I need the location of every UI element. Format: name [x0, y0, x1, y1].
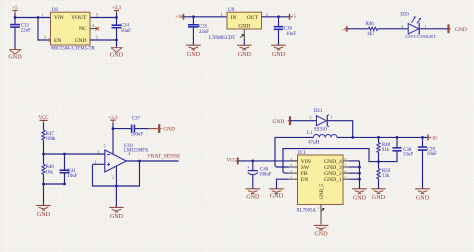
capacitor C38	[396, 136, 399, 139]
ground GND_5	[314, 224, 329, 226]
svg-text:10uF: 10uF	[121, 29, 131, 34]
ground GND divider	[36, 205, 51, 207]
junction	[192, 15, 195, 18]
ground GND C35	[186, 44, 201, 46]
svg-text:GND: GND	[238, 23, 250, 29]
wire riser SW	[275, 137, 289, 167]
power port VCC XL	[237, 157, 239, 164]
svg-text:4k7: 4k7	[367, 32, 375, 37]
svg-text:47µH: 47µH	[308, 141, 320, 146]
resistor R50	[378, 162, 380, 169]
regulator U9	[227, 12, 262, 29]
svg-text:U9: U9	[228, 7, 235, 13]
svg-text:IC1: IC1	[298, 151, 306, 156]
diode D21	[316, 116, 326, 126]
svg-text:GND: GND	[270, 194, 284, 200]
svg-text:GND_2: GND_2	[324, 171, 342, 177]
pin 2 wire	[115, 166, 117, 207]
svg-text:SS310: SS310	[314, 127, 327, 132]
svg-text:GND: GND	[353, 195, 367, 201]
resistor R40	[43, 154, 45, 164]
svg-text:SW: SW	[301, 165, 310, 171]
svg-text:GND: GND	[314, 232, 328, 238]
op-amp U10	[105, 150, 127, 172]
svg-text:1: 1	[42, 13, 44, 17]
svg-text:GND: GND	[110, 214, 124, 220]
svg-text:C33: C33	[21, 23, 30, 28]
svg-text:D20: D20	[400, 12, 409, 17]
wire FB rail over IC	[283, 149, 379, 174]
svg-text:LTST-C190GKT: LTST-C190GKT	[405, 34, 436, 39]
wire GND to D21	[290, 120, 316, 122]
svg-text:100nF: 100nF	[131, 133, 144, 138]
svg-text:GND: GND	[163, 127, 175, 133]
svg-text:VBAT_SENSE: VBAT_SENSE	[147, 154, 181, 160]
svg-text:22uF: 22uF	[199, 30, 209, 35]
wire output rail	[337, 136, 428, 138]
svg-text:91k: 91k	[382, 148, 390, 153]
junction node	[42, 153, 45, 156]
svg-text:5: 5	[96, 13, 98, 17]
capacitor C41	[64, 154, 66, 170]
svg-text:VIN: VIN	[54, 15, 64, 21]
regulator IC1	[298, 155, 344, 205]
svg-text:D21: D21	[314, 109, 323, 114]
svg-text:100uF: 100uF	[259, 172, 272, 177]
ground GND C39	[415, 188, 430, 190]
svg-text:GND_1: GND_1	[324, 177, 342, 183]
ground GND C36	[271, 44, 286, 46]
svg-text:+10: +10	[429, 137, 437, 142]
ground GND C33	[9, 50, 20, 55]
svg-text:3: 3	[97, 151, 99, 155]
svg-text:3: 3	[266, 13, 268, 17]
capacitor C35	[192, 17, 194, 25]
svg-text:U8: U8	[52, 7, 59, 13]
power port GND D21	[289, 116, 291, 125]
power port +5 out	[289, 14, 291, 20]
svg-text:L1: L1	[307, 131, 313, 136]
comment arrow	[240, 35, 243, 38]
svg-text:OUT: OUT	[247, 15, 259, 21]
svg-text:GND: GND	[272, 119, 284, 125]
svg-text:+5: +5	[291, 15, 297, 20]
svg-text:VIN: VIN	[301, 159, 311, 165]
svg-text:1: 1	[221, 13, 223, 17]
svg-text:+5: +5	[12, 6, 18, 11]
ground GND opamp	[109, 206, 124, 208]
power port VCC	[40, 119, 48, 121]
power port +10 out	[427, 134, 429, 140]
svg-text:13k: 13k	[382, 174, 390, 179]
svg-text:GND: GND	[238, 52, 252, 58]
capacitor C33	[14, 18, 16, 25]
svg-text:GND: GND	[455, 27, 467, 33]
svg-text:10uF: 10uF	[286, 32, 296, 37]
svg-text:2: 2	[401, 25, 403, 29]
svg-text:+5: +5	[342, 27, 346, 32]
svg-text:MIC5504-3.3YM5-TR: MIC5504-3.3YM5-TR	[51, 46, 96, 51]
svg-text:+10: +10	[175, 15, 183, 20]
svg-text:GND: GND	[75, 38, 87, 44]
wire +5 to U8 VIN	[15, 17, 51, 19]
svg-text:XL7005A: XL7005A	[296, 209, 316, 214]
capacitor C36	[278, 17, 280, 27]
pin 3 EN bubble	[48, 39, 50, 41]
svg-text:100k: 100k	[46, 137, 56, 142]
svg-text:1: 1	[95, 160, 97, 164]
svg-text:GND_3: GND_3	[324, 165, 342, 171]
svg-text:GND: GND	[187, 52, 201, 58]
ground GND C40	[246, 188, 261, 190]
svg-text:1: 1	[331, 115, 333, 119]
pin 3 wire OUT	[262, 16, 290, 18]
wire to R46	[347, 28, 368, 30]
comment arrow XL	[321, 209, 324, 212]
pin 2 wire	[243, 29, 245, 39]
svg-text:22uF: 22uF	[21, 29, 31, 34]
svg-text:GND: GND	[110, 53, 124, 59]
resistor R47	[42, 130, 45, 140]
pin GND_5 wire	[320, 205, 322, 225]
wire node to opamp	[44, 153, 105, 155]
LED arrows	[412, 18, 415, 23]
wire to ground	[116, 40, 118, 48]
resistor R48	[378, 137, 380, 142]
power port GND LED	[447, 24, 449, 33]
wire L1 left	[275, 136, 313, 138]
svg-text:VCC: VCC	[227, 158, 237, 163]
svg-text:4: 4	[92, 24, 94, 28]
wire EN branch	[38, 18, 47, 41]
svg-text:GND_5: GND_5	[320, 184, 325, 200]
pin 5 wire	[112, 129, 114, 155]
LED D20	[408, 24, 419, 34]
pin stubs right	[343, 160, 349, 162]
wire EN to ground	[277, 179, 289, 189]
svg-text:EN: EN	[54, 38, 61, 44]
resistor R46	[368, 27, 377, 30]
svg-text:+3.3: +3.3	[108, 116, 118, 121]
wire R47 to node	[43, 140, 45, 154]
svg-text:GND: GND	[272, 52, 286, 58]
junction	[14, 16, 17, 19]
svg-text:10uF: 10uF	[427, 152, 437, 157]
wire ground bus right	[359, 161, 361, 189]
power port +5	[13, 10, 18, 12]
svg-text:2: 2	[112, 176, 114, 180]
svg-text:10uF: 10uF	[67, 174, 77, 179]
capacitor C37	[113, 128, 132, 130]
pin 2 wire GND	[90, 39, 117, 41]
wire D20 to GND	[419, 28, 447, 30]
wire R46 to D20	[378, 28, 409, 30]
svg-text:3: 3	[44, 36, 46, 40]
power port +3.3	[114, 10, 119, 12]
power port +5 LED	[346, 26, 348, 32]
svg-text:+3.3: +3.3	[112, 6, 122, 11]
svg-text:10k: 10k	[46, 170, 54, 175]
svg-text:C34: C34	[121, 24, 130, 29]
ground GND R50	[371, 188, 386, 190]
svg-text:2: 2	[309, 115, 311, 119]
wire D21 to node	[327, 121, 352, 138]
svg-text:5: 5	[104, 144, 106, 148]
svg-text:C37: C37	[132, 117, 141, 122]
svg-text:EN: EN	[301, 177, 308, 183]
ground GND C34	[111, 48, 122, 53]
svg-text:C36: C36	[284, 27, 293, 32]
svg-text:GND: GND	[37, 212, 51, 218]
capacitor C34	[116, 18, 118, 26]
no-connect X	[96, 27, 100, 31]
svg-text:R46: R46	[366, 22, 375, 27]
pin stubs left	[289, 160, 298, 162]
pin 4 NC stub	[90, 28, 97, 30]
pin 1 wire feedback	[93, 163, 105, 165]
svg-text:33uF: 33uF	[403, 153, 413, 158]
capacitor C40 polarized	[252, 161, 254, 171]
junction	[115, 16, 118, 19]
svg-text:GND: GND	[246, 195, 260, 201]
wire +10 to U9 IN	[184, 16, 228, 18]
svg-text:2: 2	[96, 36, 98, 40]
svg-text:L78M05CDT: L78M05CDT	[209, 36, 235, 41]
svg-text:4: 4	[128, 152, 130, 156]
svg-text:GND: GND	[8, 55, 22, 61]
power port GND C37	[158, 124, 160, 133]
ground GND U9	[237, 44, 252, 46]
wire bottom node	[44, 183, 65, 185]
svg-text:IN: IN	[231, 15, 237, 21]
ground GND EN	[269, 188, 284, 190]
wire VCC to VIN	[238, 160, 298, 162]
svg-text:VCC: VCC	[39, 116, 49, 121]
power port +10	[183, 14, 185, 20]
svg-text:GND: GND	[416, 196, 430, 202]
power port +3.3 opamp	[111, 119, 116, 121]
svg-text:GND: GND	[372, 195, 386, 201]
svg-text:VOUT: VOUT	[71, 15, 87, 21]
svg-text:1: 1	[425, 25, 427, 29]
svg-text:GND_4: GND_4	[324, 159, 342, 165]
pin 5 wire VOUT	[90, 17, 117, 19]
svg-text:FB: FB	[301, 171, 308, 177]
pin 4 output wire	[126, 160, 178, 162]
regulator U8	[51, 12, 91, 45]
junction	[277, 15, 280, 18]
ground GND bus	[352, 188, 367, 190]
svg-text:NC: NC	[79, 26, 87, 32]
capacitor C39	[421, 136, 424, 139]
